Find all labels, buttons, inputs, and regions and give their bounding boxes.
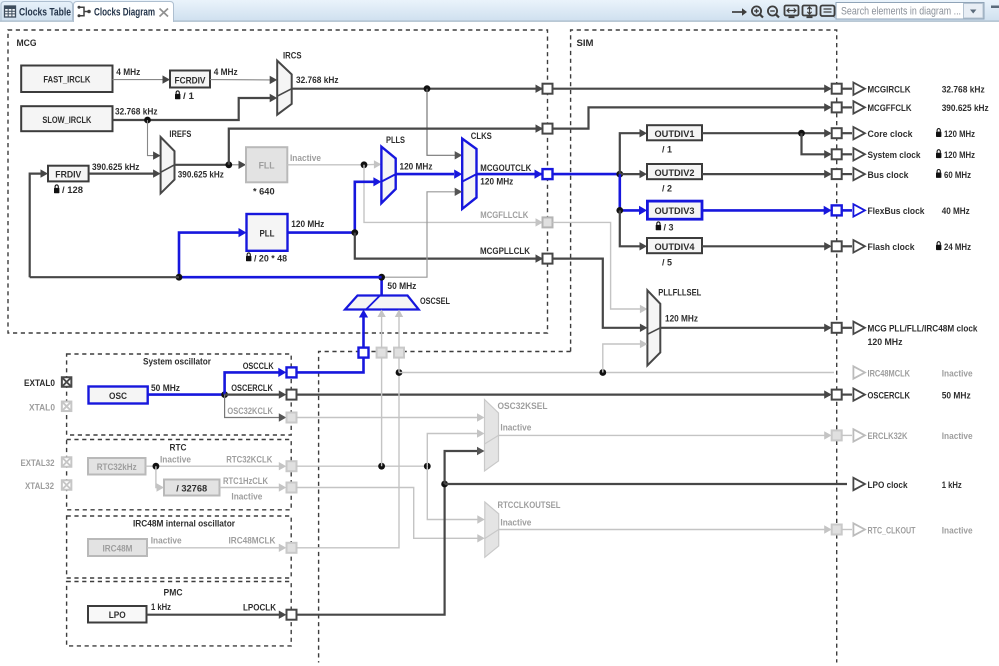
wire OUTDIV4 to Flash clock <box>702 245 830 247</box>
svg-text:120 MHz: 120 MHz <box>944 129 975 140</box>
wire IREFS output 390.625 kHz <box>175 164 229 166</box>
svg-text:120 MHz: 120 MHz <box>665 313 698 324</box>
output MCG PLL/FLL/IRC48M clock <box>853 322 978 348</box>
svg-text:System oscillator: System oscillator <box>143 357 211 368</box>
container IRC48M internal oscillator <box>67 516 292 578</box>
svg-text:32.768 kHz: 32.768 kHz <box>942 85 985 96</box>
output MCGIRCLK <box>853 83 985 96</box>
container RTC <box>67 440 292 510</box>
svg-text:FLL: FLL <box>259 160 275 171</box>
svg-text:MCGFLLCLK: MCGFLLCLK <box>480 210 528 221</box>
svg-text:RTC1HzCLK: RTC1HzCLK <box>223 476 268 487</box>
svg-text:1 kHz: 1 kHz <box>151 602 171 613</box>
wire IRC48MCLK riser to PLLFLLSEL <box>603 344 640 373</box>
node OSC <box>89 387 148 404</box>
svg-text:120 MHz: 120 MHz <box>400 162 433 173</box>
wire LPOCLK 1 kHz <box>147 614 280 616</box>
mux IRCS <box>277 61 292 115</box>
svg-text:390.625 kHz: 390.625 kHz <box>178 170 224 181</box>
wire RTC32KCLK riser to OSC32KSEL <box>427 434 478 467</box>
wire PLL to PLLS <box>355 182 374 233</box>
svg-text:PLLFLLSEL: PLLFLLSEL <box>658 288 701 299</box>
junction RTC32KCLK at SEL riser <box>424 463 431 470</box>
svg-text:Inactive: Inactive <box>942 525 973 536</box>
svg-text:MCGFFCLK: MCGFFCLK <box>868 103 912 114</box>
junction IREFS output <box>225 161 232 168</box>
wire IRC48MCLK to SIM right <box>399 372 834 374</box>
wire trunk to OUTDIV2 <box>620 173 640 175</box>
wire OSCERCLK to SIM <box>297 394 831 396</box>
node RTC32kHz (inactive) <box>88 458 146 475</box>
wire RTC1HzCLK <box>220 487 280 489</box>
svg-text:4 MHz: 4 MHz <box>116 67 140 78</box>
node LPO <box>88 606 147 623</box>
svg-text:50 MHz: 50 MHz <box>151 383 180 394</box>
svg-text:OUTDIV3: OUTDIV3 <box>655 206 695 217</box>
svg-text:50 MHz: 50 MHz <box>387 281 416 292</box>
svg-text:Inactive: Inactive <box>231 492 262 503</box>
wire trunk to OUTDIV4 <box>620 210 640 246</box>
junction IRC48MCLK at PLLFLLSEL riser <box>599 369 606 376</box>
svg-text:IRC48MCLK: IRC48MCLK <box>229 536 276 547</box>
node PLL <box>247 214 288 251</box>
junction 50MHz at PLL riser <box>176 274 183 281</box>
svg-text:/ 2: / 2 <box>662 184 672 195</box>
svg-text:Search elements in diagram ...: Search elements in diagram ... <box>841 6 961 18</box>
output System clock <box>853 148 975 161</box>
svg-text:OUTDIV4: OUTDIV4 <box>655 242 696 253</box>
svg-text:/ 20 * 48: / 20 * 48 <box>254 254 287 265</box>
container PMC <box>67 582 292 646</box>
svg-text:32.768 kHz: 32.768 kHz <box>115 107 158 118</box>
mux PLLFLLSEL <box>647 290 660 365</box>
tab close icon <box>160 9 169 17</box>
svg-text:Bus clock: Bus clock <box>868 170 910 181</box>
svg-text:LPO: LPO <box>109 610 126 621</box>
svg-text:32.768 kHz: 32.768 kHz <box>296 75 339 86</box>
svg-text:RTCCLKOUTSEL: RTCCLKOUTSEL <box>498 500 561 511</box>
wire RTC32KCLK riser to RTCCLKOUTSEL <box>427 466 478 519</box>
toolbar arrow icon <box>732 8 747 16</box>
wire PLL input <box>179 233 239 278</box>
junction RTC32kHz output <box>153 463 160 470</box>
window control fragment <box>991 6 999 9</box>
wire RTC32KCLK riser to OSCSEL <box>381 358 383 467</box>
divider OUTDIV3 (selected) <box>647 201 702 219</box>
wire FAST_IRCLK to FCRDIV 4 MHz <box>113 79 164 81</box>
wire IRC48MCLK riser to OSCSEL <box>398 358 400 373</box>
junction on SLOW_IRCLK wire <box>144 117 151 124</box>
wire PLL output 120 MHz <box>288 231 355 234</box>
junction trunk at OUTDIV3 <box>616 207 623 214</box>
svg-text:LPOCLK: LPOCLK <box>243 603 276 614</box>
svg-text:ERCLK32K: ERCLK32K <box>868 431 908 442</box>
svg-text:60 MHz: 60 MHz <box>944 170 971 181</box>
mux OSCSEL <box>345 296 419 310</box>
svg-text:/ 32768: / 32768 <box>176 483 207 494</box>
wire PLLFLLSEL output 120 MHz <box>660 327 830 329</box>
svg-text:RTC_CLKOUT: RTC_CLKOUT <box>868 525 916 536</box>
wire trunk to OUTDIV1 <box>620 133 640 174</box>
svg-text:RTC32kHz: RTC32kHz <box>97 462 137 473</box>
output FlexBus clock <box>853 204 970 217</box>
svg-text:Inactive: Inactive <box>500 518 531 529</box>
junction MCGOUTCLK trunk top <box>616 171 623 178</box>
node FLL (inactive) <box>246 147 287 182</box>
svg-text:50 MHz: 50 MHz <box>942 390 971 401</box>
svg-text:IRCS: IRCS <box>283 51 302 62</box>
wire PLLS to CLKS 120 MHz <box>396 173 454 176</box>
junction OSCSEL output <box>378 274 385 281</box>
output OSCERCLK <box>853 388 971 401</box>
junction FLL output <box>361 161 368 168</box>
svg-text:System clock: System clock <box>868 150 922 161</box>
wire RTC32KCLK <box>146 465 280 467</box>
mux OSC32KSEL (inactive) <box>485 400 499 472</box>
svg-text:120 MHz: 120 MHz <box>868 337 903 348</box>
node IRC48M (inactive) <box>88 539 147 556</box>
svg-text:SLOW_IRCLK: SLOW_IRCLK <box>42 115 91 126</box>
container MCG <box>8 30 548 333</box>
svg-text:XTAL32: XTAL32 <box>25 481 54 492</box>
wire FLL output Inactive <box>287 163 375 165</box>
wire MCGOUTCLK <box>477 173 620 176</box>
wire 50 MHz dark to FRDIV riser <box>30 276 179 278</box>
container System oscillator <box>67 354 292 435</box>
svg-text:OSC32KSEL: OSC32KSEL <box>498 401 548 412</box>
wire OUTDIV3 to FlexBus clock <box>702 209 829 212</box>
svg-text:/ 1: / 1 <box>662 145 673 156</box>
divider OUTDIV2 <box>647 164 702 179</box>
svg-text:LPO clock: LPO clock <box>868 480 909 491</box>
svg-text:IREFS: IREFS <box>169 129 191 140</box>
toolbar details icon <box>821 6 835 19</box>
tab Clocks Table <box>1 2 73 22</box>
svg-text:OSCERCLK: OSCERCLK <box>231 383 273 394</box>
junction IRCS output to CLKS branch <box>424 85 431 92</box>
output ERCLK32K <box>853 429 972 442</box>
toolbar expand icon <box>803 6 817 18</box>
wire MCGIRCLK 32.768 kHz <box>292 88 830 90</box>
svg-text:IRC48M: IRC48M <box>103 544 133 555</box>
mux RTCCLKOUTSEL (inactive) <box>485 502 499 557</box>
svg-text:EXTAL32: EXTAL32 <box>21 458 55 469</box>
wire SLOW_IRCLK branch to IREFS <box>148 120 155 156</box>
output IRC48MCLK <box>853 366 972 379</box>
junction IRC48MCLK corner <box>396 369 403 376</box>
wire internal ref to CLKS <box>427 89 456 156</box>
svg-text:FlexBus clock: FlexBus clock <box>868 206 926 217</box>
divider FRDIV <box>48 166 89 182</box>
svg-text:120 MHz: 120 MHz <box>480 177 513 188</box>
svg-text:EXTAL0: EXTAL0 <box>24 378 55 389</box>
wire LPO clock to right edge <box>445 483 847 485</box>
svg-text:OSCERCLK: OSCERCLK <box>868 390 911 401</box>
wire OSC32KCLK to OSC32KSEL <box>297 417 479 419</box>
svg-text:CLKS: CLKS <box>471 131 492 142</box>
svg-text:Inactive: Inactive <box>942 368 973 379</box>
wire ERCLK32K <box>499 434 830 436</box>
output Bus clock <box>853 168 971 181</box>
output Flash clock <box>853 240 971 253</box>
svg-text:FCRDIV: FCRDIV <box>175 75 207 86</box>
svg-text:PLL: PLL <box>260 229 275 240</box>
svg-text:RTC: RTC <box>170 443 187 454</box>
svg-text:* 640: * 640 <box>253 187 275 198</box>
wire trunk blue to OUTDIV3 <box>620 174 639 210</box>
search combo box <box>836 3 984 20</box>
icon clocks table <box>5 6 16 17</box>
wire FRDIV input from 50 MHz line <box>30 174 42 278</box>
svg-text:Flash clock: Flash clock <box>868 242 916 253</box>
svg-text:OSCCLK: OSCCLK <box>243 361 274 372</box>
wire external ref to CLKS <box>382 192 456 277</box>
svg-text:Inactive: Inactive <box>500 423 531 434</box>
svg-text:/ 5: / 5 <box>662 258 673 269</box>
wire OUTDIV1 to Core clock <box>702 132 830 134</box>
svg-text:MCG: MCG <box>17 38 37 49</box>
container SIM <box>571 30 837 663</box>
junction RTC32KCLK at OSCSEL riser <box>378 463 385 470</box>
lock OUTDIV3 / 3 <box>656 222 661 230</box>
wire 50 MHz blue to PLL riser <box>179 276 382 279</box>
svg-text:XTAL0: XTAL0 <box>29 403 55 414</box>
svg-text:Inactive: Inactive <box>160 455 191 466</box>
mux PLLS <box>381 147 395 204</box>
svg-text:OUTDIV1: OUTDIV1 <box>655 129 696 140</box>
output Core clock <box>853 127 975 140</box>
svg-text:Inactive: Inactive <box>290 153 321 164</box>
svg-text:/ 3: / 3 <box>664 223 674 234</box>
wire OSCERCLK inside oscillator <box>225 394 280 396</box>
wire RTC_CLKOUT <box>499 529 829 531</box>
svg-text:24 MHz: 24 MHz <box>944 242 971 253</box>
svg-text:Clocks Table: Clocks Table <box>19 7 71 19</box>
node FAST_IRCLK <box>21 66 112 93</box>
svg-text:390.625 kHz: 390.625 kHz <box>942 103 989 114</box>
svg-text:MCGPLLCLK: MCGPLLCLK <box>480 246 530 257</box>
svg-text:4 MHz: 4 MHz <box>214 67 238 78</box>
wire FRDIV to IREFS 390.625 kHz <box>89 173 154 175</box>
lock FCRDIV / 1 <box>175 91 180 99</box>
node SLOW_IRCLK <box>21 106 112 131</box>
toolbar fit-screen icon <box>785 6 799 18</box>
lock PLL / 20 * 48 <box>246 253 251 261</box>
icon clocks diagram <box>78 6 91 18</box>
svg-text:RTC32KCLK: RTC32KCLK <box>226 455 272 466</box>
wire SLOW_IRCLK to IRCS 32.768 kHz <box>113 98 272 120</box>
svg-text:Inactive: Inactive <box>151 536 182 547</box>
divider OUTDIV1 <box>647 125 702 140</box>
wire OUTDIV2 to Bus clock <box>702 173 830 175</box>
svg-text:/ 128: / 128 <box>62 185 83 196</box>
wire OSC32KCLK <box>225 395 280 418</box>
junction LPO at LPO clock branch <box>441 481 448 488</box>
wire IRC48MCLK <box>147 547 280 549</box>
svg-text:OUTDIV2: OUTDIV2 <box>655 168 695 179</box>
svg-text:FAST_IRCLK: FAST_IRCLK <box>43 74 90 85</box>
output MCGFFCLK <box>853 101 989 114</box>
svg-text:MCG PLL/FLL/IRC48M clock: MCG PLL/FLL/IRC48M clock <box>868 324 979 335</box>
svg-text:40 MHz: 40 MHz <box>942 206 970 217</box>
wire MCGFLLCLK <box>364 165 548 223</box>
lock FRDIV / 128 <box>54 185 59 193</box>
junction OSC output <box>221 391 228 398</box>
svg-text:120 MHz: 120 MHz <box>291 219 324 230</box>
output RTC_CLKOUT <box>853 523 972 536</box>
svg-text:MCGIRCLK: MCGIRCLK <box>868 85 911 96</box>
svg-text:1 kHz: 1 kHz <box>942 480 962 491</box>
toolbar zoom-out icon <box>768 6 779 17</box>
svg-text:Clocks Diagram: Clocks Diagram <box>94 7 155 19</box>
svg-text:OSC32KCLK: OSC32KCLK <box>227 406 273 417</box>
divider FCRDIV <box>170 71 210 88</box>
wire OSCCLK <box>225 372 279 394</box>
wire OSCSEL output 50 MHz <box>380 277 383 295</box>
divider OUTDIV4 <box>647 238 702 253</box>
svg-text:Inactive: Inactive <box>942 431 973 442</box>
wire LPO riser to OSC32KSEL <box>445 451 478 484</box>
wire FCRDIV to IRCS 4 MHz <box>210 79 271 81</box>
mux CLKS <box>462 139 476 209</box>
svg-text:OSC: OSC <box>109 391 127 402</box>
svg-text:120 MHz: 120 MHz <box>944 150 975 161</box>
svg-text:390.625 kHz: 390.625 kHz <box>92 162 140 173</box>
wire OSCCLK riser to OSCSEL <box>362 317 365 348</box>
tab Clocks Diagram (selected) <box>74 2 174 23</box>
svg-text:SIM: SIM <box>577 38 594 49</box>
svg-text:FRDIV: FRDIV <box>55 170 82 181</box>
svg-text:OSCSEL: OSCSEL <box>420 296 450 307</box>
junction Core/System split <box>798 130 805 137</box>
svg-text:PMC: PMC <box>164 588 183 599</box>
svg-text:IRC48MCLK: IRC48MCLK <box>868 368 911 379</box>
port OSCCLK into SIM region <box>359 348 369 358</box>
svg-text:IRC48M internal oscillator: IRC48M internal oscillator <box>133 519 235 530</box>
wire to divider /32768 <box>156 466 158 487</box>
output LPO clock <box>853 478 961 491</box>
junction PLL output <box>351 229 358 236</box>
toolbar zoom-in icon <box>752 6 763 17</box>
svg-text:Core clock: Core clock <box>868 129 914 140</box>
mux IREFS <box>161 137 175 193</box>
svg-text:MCGOUTCLK: MCGOUTCLK <box>480 163 531 174</box>
wire MCGFFCLK <box>229 129 548 165</box>
svg-text:PLLS: PLLS <box>386 135 405 146</box>
wire to System clock <box>802 133 831 154</box>
divider /32768 <box>164 480 220 496</box>
wire MCGPLLCLK <box>355 233 548 259</box>
svg-text:/ 1: / 1 <box>183 91 195 102</box>
wire OSC output 50 MHz <box>148 393 225 396</box>
